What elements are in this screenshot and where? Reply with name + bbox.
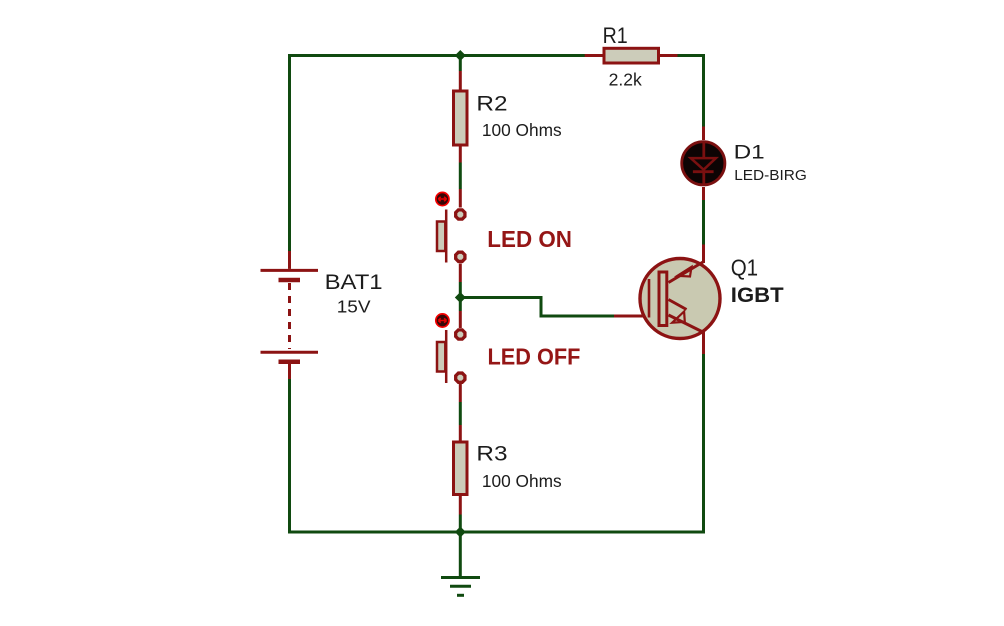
- resistor R1: [585, 24, 678, 90]
- wire right vertical middle: [702, 200, 705, 245]
- svg-text:LED OFF: LED OFF: [488, 344, 581, 370]
- wire right vertical lower: [702, 354, 705, 534]
- collector arrow: [677, 267, 691, 277]
- node bottom junction: [455, 527, 466, 538]
- svg-text:Q1: Q1: [731, 254, 758, 280]
- svg-text:R2: R2: [476, 91, 507, 115]
- svg-text:100 Ohms: 100 Ohms: [482, 471, 562, 491]
- battery BAT1: [261, 251, 383, 379]
- ground: [441, 578, 480, 596]
- emitter arrow: [672, 312, 685, 323]
- pushbutton LED OFF: [436, 311, 581, 402]
- actuator LED ON button: [436, 192, 449, 205]
- wire left vertical lower: [288, 379, 291, 534]
- LED D1: [682, 127, 807, 201]
- wire center column segment below top junction: [459, 56, 462, 72]
- channel rectangle: [659, 272, 667, 326]
- svg-text:IGBT: IGBT: [731, 282, 784, 307]
- wire gate run from junction to Q1: [460, 298, 614, 317]
- wire right vertical upper: [702, 54, 705, 127]
- wire center column gate junction to button LED OFF: [459, 298, 462, 312]
- middle stub: [669, 300, 687, 310]
- node gate junction: [455, 292, 466, 303]
- svg-text:100 Ohms: 100 Ohms: [482, 120, 562, 140]
- svg-text:15V: 15V: [337, 297, 372, 316]
- svg-text:2.2k: 2.2k: [609, 70, 642, 90]
- wire center column button LED ON to gate junction: [459, 282, 462, 298]
- actuator LED OFF button: [436, 314, 449, 327]
- resistor R2: [454, 71, 563, 163]
- wire center column R2 to button LED ON: [459, 163, 462, 190]
- wire left vertical upper: [288, 54, 291, 251]
- wire bottom horizontal: [288, 531, 705, 534]
- node top junction: [455, 50, 466, 61]
- wire top horizontal: [288, 54, 704, 57]
- wire center column button LED OFF to R3: [459, 402, 462, 425]
- svg-text:R1: R1: [603, 24, 628, 48]
- svg-text:BAT1: BAT1: [325, 269, 383, 294]
- resistor R3: [454, 425, 563, 515]
- collector lead: [669, 262, 704, 283]
- svg-text:R3: R3: [476, 442, 507, 465]
- gate bar: [648, 279, 651, 318]
- wire center column R3 to bottom: [459, 515, 462, 533]
- svg-text:LED-BIRG: LED-BIRG: [734, 168, 807, 183]
- emitter lead: [669, 315, 704, 333]
- transistor Q1 IGBT: [614, 245, 784, 355]
- wire ground stem: [459, 532, 462, 576]
- svg-text:D1: D1: [734, 141, 765, 163]
- svg-text:LED ON: LED ON: [487, 225, 572, 252]
- pushbutton LED ON: [436, 189, 572, 282]
